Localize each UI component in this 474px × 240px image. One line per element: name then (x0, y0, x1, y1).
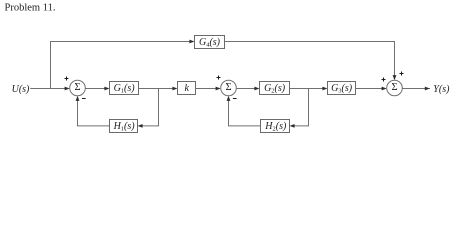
svg-text:G1(s): G1(s) (114, 83, 136, 95)
svg-text:Σ: Σ (225, 82, 231, 93)
svg-text:Y(s): Y(s) (433, 84, 450, 95)
svg-text:Problem 11.: Problem 11. (5, 3, 56, 14)
svg-text:H2(s): H2(s) (264, 121, 287, 133)
svg-text:G3(s): G3(s) (331, 83, 353, 95)
svg-text:Σ: Σ (391, 82, 397, 93)
svg-text:k: k (184, 83, 189, 94)
svg-text:G4(s): G4(s) (199, 37, 221, 49)
svg-text:H1(s): H1(s) (113, 121, 136, 133)
svg-text:U(s): U(s) (12, 84, 30, 95)
svg-text:G2(s): G2(s) (264, 83, 286, 95)
svg-text:Σ: Σ (74, 82, 80, 93)
